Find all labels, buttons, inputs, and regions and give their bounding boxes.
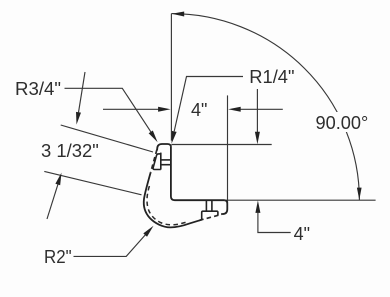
bottom foot flange outline bbox=[202, 211, 218, 219]
3 1/32 lower arrowhead bbox=[55, 173, 61, 186]
top 4in dimension left arrowhead bbox=[158, 107, 171, 112]
right vertical 4in dim upper arrowhead bbox=[255, 132, 260, 145]
svg-text:3 1/32": 3 1/32" bbox=[41, 141, 99, 161]
hidden outer silhouette under bottom foot (dashed) bbox=[199, 214, 222, 220]
profile hidden inner cavity wall (dashed arc inside bulb) bbox=[147, 186, 188, 225]
profile outer left edge and R2 bottom arc bbox=[144, 172, 202, 227]
vertical extension line (left leg direction, x=171.4) bbox=[170, 14, 172, 141]
angular dimension arc 90.00 degrees bbox=[171, 14, 359, 201]
R1/4 arrowhead bbox=[172, 131, 177, 144]
90.00 deg text bbox=[313, 112, 372, 132]
profile inner corner edge (vertical + fillet + horizontal) bbox=[171, 147, 225, 201]
bottom edge extension line (y=200.2) bbox=[226, 199, 376, 201]
bottom foot neck left line bbox=[205, 200, 207, 211]
right vertical 4in dim lower arrowhead bbox=[255, 200, 260, 213]
3 1/32 extension line B bbox=[44, 171, 141, 194]
right vertical 4in dim leader bbox=[258, 213, 291, 233]
R2 arrowhead bbox=[143, 226, 153, 237]
hidden outer silhouette along left tab (dashed) bbox=[151, 150, 157, 173]
profile right end cap bbox=[221, 200, 227, 214]
3 1/32 extension line A bbox=[61, 125, 153, 152]
R1/4 leader bbox=[174, 77, 243, 132]
arc top arrowhead bbox=[172, 12, 185, 17]
R2 leader bbox=[74, 235, 146, 257]
left tab slot lower line bbox=[161, 164, 171, 166]
top 4in dimension right shaft bbox=[240, 108, 283, 110]
3 1/32 upper arrowhead bbox=[76, 112, 81, 125]
R3/4 arrowhead bbox=[149, 130, 158, 142]
svg-text:R1/4": R1/4" bbox=[249, 67, 294, 87]
left tab flange outline bbox=[153, 154, 161, 170]
arc bottom arrowhead bbox=[357, 188, 362, 200]
bottom foot neck right line bbox=[211, 200, 213, 211]
top 4in dimension right arrowhead bbox=[228, 107, 241, 112]
svg-text:90.00°: 90.00° bbox=[316, 113, 369, 133]
svg-text:4": 4" bbox=[191, 100, 207, 120]
svg-text:4": 4" bbox=[294, 224, 310, 244]
top 4in dimension left shaft bbox=[103, 108, 159, 110]
left tab right edge bbox=[160, 153, 162, 170]
top edge extension line (y=144.5) bbox=[171, 144, 271, 146]
R3/4 leader bbox=[65, 88, 151, 132]
svg-text:R2": R2" bbox=[44, 247, 72, 267]
right extension line (x=227.5) bbox=[227, 95, 229, 202]
right vertical 4in dim upper shaft bbox=[256, 89, 258, 133]
left tab slot upper line bbox=[161, 159, 171, 161]
svg-text:R3/4": R3/4" bbox=[15, 79, 61, 99]
profile top bead (R1/4 corner bead) bbox=[157, 144, 171, 150]
3 1/32 upper dim shaft bbox=[79, 72, 86, 112]
3 1/32 lower dim shaft bbox=[47, 184, 58, 219]
